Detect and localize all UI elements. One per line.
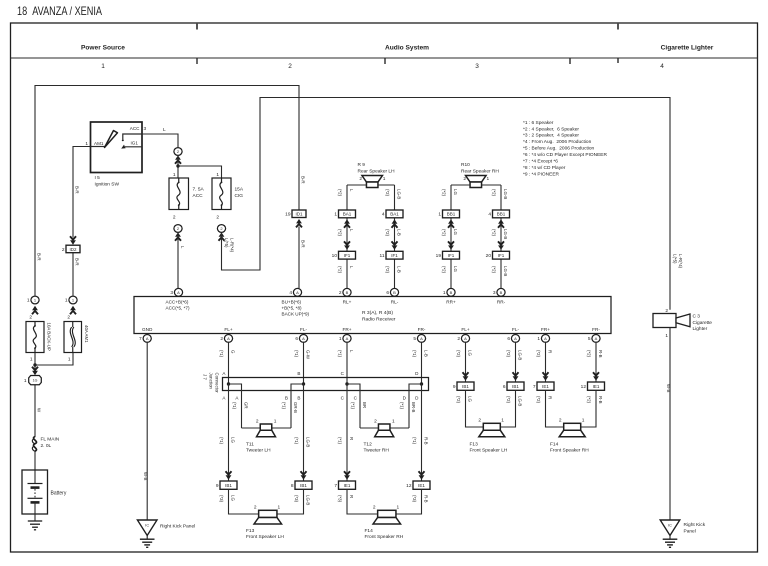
svg-text:CIG: CIG: [235, 193, 244, 199]
svg-text:ACC: ACC: [193, 193, 204, 199]
radio label FR+ at x=347: [343, 327, 352, 332]
svg-text:2: 2: [339, 290, 342, 296]
wire rear speaker chain x=451: [450, 185, 452, 288]
svg-text:(*1): (*1): [338, 350, 343, 358]
svg-text:IG1: IG1: [131, 141, 139, 146]
svg-text:R-B: R-B: [424, 495, 429, 503]
svg-text:Power Source: Power Source: [81, 45, 125, 52]
column number 3: [475, 63, 479, 70]
wire IE1 to F14 RH group2: [546, 390, 597, 427]
wire IE1 to F14 RH: [347, 489, 422, 514]
ground IC right kick panel (radio): [137, 520, 157, 547]
svg-text:2: 2: [463, 176, 466, 182]
ignition switch IG1 contact: [121, 145, 142, 149]
svg-text:F13: F13: [246, 528, 255, 534]
svg-text:LG: LG: [453, 266, 458, 272]
branch label (*1) GR-B: [282, 402, 298, 413]
svg-text:RL-: RL-: [391, 300, 399, 305]
svg-text:LG-B: LG-B: [306, 437, 311, 447]
svg-text:3: 3: [493, 290, 496, 296]
svg-text:FR-: FR-: [418, 327, 426, 332]
arrow into circle 2 below switch: [175, 155, 181, 163]
arrow into IB1 pin 9: [226, 471, 232, 479]
connector ID1: [285, 210, 306, 218]
wire label (*3) R-B: [412, 495, 428, 503]
arrow into IB1 pin 6 group2: [513, 372, 519, 380]
svg-text:(*1): (*1): [219, 437, 224, 445]
pin 2 of 40A AM1: [67, 315, 70, 321]
svg-text:LG-B: LG-B: [503, 266, 508, 276]
wire IB1 to F13 LH: [229, 489, 304, 514]
arrow into IF1 from above x=501: [498, 241, 504, 249]
svg-text:Tweeter RH: Tweeter RH: [364, 448, 390, 454]
arrow into IF1 from above x=394.5: [392, 241, 398, 249]
svg-text:2: 2: [478, 418, 481, 424]
pins of F14: [373, 505, 400, 511]
label T11 Tweeter LH: [246, 441, 271, 453]
arrow into IE1 pin 7: [344, 471, 350, 479]
svg-text:B: B: [297, 371, 300, 376]
front speaker F14 RH group2: [559, 423, 585, 437]
header divider line: [11, 57, 758, 59]
connector IF1 pin 19: [436, 251, 460, 259]
svg-text:5: 5: [588, 336, 591, 342]
svg-text:2: 2: [220, 336, 223, 342]
svg-text:(*3): (*3): [219, 495, 224, 503]
svg-text:LG-B: LG-B: [306, 495, 311, 505]
svg-text:ID1: ID1: [295, 212, 303, 217]
pins of F14 group2: [559, 418, 585, 424]
wire label (*2) LG: [442, 266, 458, 274]
svg-text:R: R: [349, 495, 354, 498]
connector IE1 pin 7 group2: [533, 382, 554, 390]
svg-text:(*2): (*2): [492, 229, 497, 237]
svg-text:Cigarette Lighter: Cigarette Lighter: [661, 45, 714, 52]
svg-text:G: G: [231, 350, 236, 354]
wire label (*2) R upper: [536, 350, 552, 358]
svg-text:ACC: ACC: [130, 126, 140, 131]
node letters B B below junction: [285, 396, 301, 401]
arrow into BB1 from below: [498, 219, 504, 227]
svg-text:B-R: B-R: [75, 258, 80, 266]
radio label RR+: [446, 300, 456, 305]
svg-text:2: 2: [374, 418, 377, 424]
svg-text:(*2): (*2): [385, 229, 390, 237]
wire label (*1) LG: [219, 437, 235, 445]
radio bottom pin 5 FR- at x=421.5: [413, 335, 425, 343]
svg-text:L: L: [163, 127, 166, 133]
svg-text:FL+: FL+: [461, 327, 469, 332]
svg-text:4: 4: [382, 212, 385, 218]
svg-text:Panel: Panel: [684, 528, 696, 534]
wire label B-R below ID2: [75, 258, 80, 266]
connector circle 2 below CIG fuse: [217, 225, 225, 233]
svg-text:IF1: IF1: [498, 253, 505, 258]
svg-text:IB1: IB1: [462, 384, 469, 389]
svg-text:1: 1: [501, 418, 504, 424]
connector IF1 pin 11: [380, 251, 403, 259]
svg-text:Front Speaker RH: Front Speaker RH: [550, 448, 589, 454]
svg-text:1: 1: [397, 505, 400, 511]
svg-text:BACK UP(*9): BACK UP(*9): [282, 311, 310, 316]
wire CIG fuse to cigarette lighter: [222, 98, 671, 310]
branch wire D to tweeter: [409, 384, 422, 428]
section label Cigarette Lighter: [661, 45, 714, 52]
wire label (*1) G: [219, 350, 235, 358]
svg-text:Junction: Junction: [209, 373, 214, 390]
node letters C C below junction: [341, 396, 358, 401]
svg-text:*1 : 6 Speaker: *1 : 6 Speaker: [523, 120, 554, 126]
svg-text:1: 1: [216, 172, 219, 178]
svg-text:Right Kick Panel: Right Kick Panel: [160, 524, 195, 530]
svg-text:AM1: AM1: [94, 141, 104, 146]
connector circle 2 below switch: [174, 148, 182, 156]
svg-text:2: 2: [457, 336, 460, 342]
wire radio to IE1 pin 12: [595, 342, 597, 382]
svg-text:(*1): (*1): [338, 437, 343, 445]
pin 2 of 7.5A ACC: [173, 214, 176, 220]
svg-text:B: B: [346, 290, 349, 295]
svg-text:B: B: [500, 290, 503, 295]
wire radio B to junction connector: [303, 342, 305, 384]
svg-text:1: 1: [30, 357, 33, 363]
svg-text:(*2): (*2): [506, 396, 511, 404]
svg-text:1: 1: [85, 141, 88, 147]
radio label RR-: [497, 300, 506, 305]
svg-text:FR-: FR-: [592, 327, 600, 332]
pin 2 of 15A CIG: [216, 214, 219, 220]
svg-text:IC: IC: [145, 523, 149, 527]
svg-text:3: 3: [144, 126, 147, 132]
connector IE1 pin 7: [334, 481, 355, 489]
wire label (*2) LG-B lower: [506, 396, 522, 406]
svg-text:(*2): (*2): [442, 189, 447, 197]
svg-text:LG: LG: [453, 229, 458, 235]
fusible link FL MAIN 2.0L: [32, 437, 36, 452]
svg-text:Battery: Battery: [51, 491, 67, 497]
arrow into IE1 pin 7 group2: [543, 372, 549, 380]
wire R 9 stubs: [347, 184, 395, 186]
radio bottom pin 6 FL- at x=515.5: [507, 335, 519, 343]
wire A junction to IB1/IE1: [228, 384, 230, 481]
wire label (*2) LG-B: [492, 229, 508, 239]
svg-text:IE1: IE1: [418, 483, 425, 488]
svg-text:LG-B: LG-B: [518, 350, 523, 360]
svg-text:R: R: [349, 437, 354, 440]
svg-text:FL+: FL+: [224, 327, 232, 332]
svg-text:(*2): (*2): [587, 396, 592, 404]
label F13 Front Speaker LH: [246, 528, 284, 540]
pin 2 of 10A BACK-UP: [29, 315, 32, 321]
wire battery to connector 1G: [34, 385, 36, 484]
svg-text:6: 6: [295, 336, 298, 342]
junction node A: [227, 382, 230, 385]
svg-text:(*2): (*2): [338, 189, 343, 197]
wire 40A AM1 to ID2: [72, 253, 74, 296]
pins of T11: [256, 418, 277, 424]
svg-text:(*1): (*1): [412, 437, 417, 445]
svg-text:(*1): (*1): [219, 350, 224, 358]
svg-text:(*2): (*2): [456, 396, 461, 404]
svg-text:F14: F14: [365, 528, 374, 534]
svg-text:LG: LG: [453, 189, 458, 195]
wire label (*1) L: [338, 350, 354, 358]
title: [17, 4, 102, 18]
radio label FL- at x=303.5: [300, 327, 307, 332]
label 10A BACK-UP: [47, 323, 52, 351]
wire ACC fuse to radio: [177, 233, 179, 289]
svg-text:(*3): (*3): [338, 495, 343, 503]
svg-text:2: 2: [373, 505, 376, 511]
pin 1 of 10A BACK-UP: [30, 357, 33, 363]
node letters D D below junction: [403, 396, 420, 401]
label 15A CIG: [235, 187, 244, 200]
notes legend *1-*9: [523, 120, 608, 178]
label Right Kick Panel (radio): [160, 524, 195, 530]
svg-text:1: 1: [438, 212, 441, 218]
svg-text:A: A: [346, 336, 349, 341]
connector circle 2 below ACC fuse: [174, 225, 182, 233]
radio label RL-: [391, 300, 399, 305]
radio pin 4 +B: [289, 288, 301, 296]
wire fuse join to 1G: [35, 353, 73, 369]
label IG1: [131, 141, 139, 146]
svg-text:IF1: IF1: [448, 253, 455, 258]
svg-text:B: B: [285, 396, 288, 401]
svg-text:IE1: IE1: [344, 483, 351, 488]
svg-text:RR+: RR+: [446, 300, 456, 305]
svg-text:R: R: [548, 396, 553, 399]
svg-text:1: 1: [487, 176, 490, 182]
radio label ACC+B: [166, 299, 190, 310]
label R 3(A) R 4(B) Radio Receiver: [362, 310, 396, 323]
arrow into circle below ACC fuse: [175, 232, 181, 240]
svg-text:2: 2: [665, 308, 668, 314]
label 7.5A ACC: [193, 187, 205, 200]
svg-text:A: A: [146, 336, 149, 341]
svg-text:6: 6: [503, 384, 506, 390]
svg-text:*5 : Before Aug. 2006 Product: *5 : Before Aug. 2006 Production: [523, 146, 595, 152]
label F14 Front Speaker RH group2: [550, 441, 589, 453]
branch label (*1) BR-B: [400, 402, 416, 413]
svg-text:(*2): (*2): [385, 266, 390, 274]
wire ID2 to ignition switch AM1: [73, 147, 91, 238]
wire label L to radio ACC: [180, 246, 185, 249]
svg-text:*3 : 2 Speaker, 4 Speaker: *3 : 2 Speaker, 4 Speaker: [523, 133, 579, 139]
wire circle to fuse split: [177, 156, 179, 178]
svg-text:19: 19: [436, 253, 442, 259]
wire label (*2) LG lower: [456, 396, 472, 404]
svg-text:1: 1: [278, 505, 281, 511]
svg-text:IE1: IE1: [593, 384, 600, 389]
wire radio to IE1 pin 7: [545, 342, 547, 382]
svg-text:B-R: B-R: [300, 240, 305, 248]
svg-text:A: A: [420, 336, 423, 341]
wire radio to IB1 pin 9: [465, 342, 467, 382]
arrow into ID2 from above: [70, 236, 76, 244]
label C 3 Cigarette Lighter: [693, 314, 713, 333]
svg-text:IE1: IE1: [542, 384, 549, 389]
svg-text:11: 11: [380, 253, 385, 259]
svg-text:Rear Speaker LH: Rear Speaker LH: [358, 168, 396, 174]
node letter A above junction: [222, 371, 226, 376]
svg-text:A: A: [296, 290, 299, 295]
svg-text:LG-B: LG-B: [518, 396, 523, 406]
tweeter T11 LH: [242, 424, 292, 437]
svg-text:(*1): (*1): [282, 402, 287, 410]
svg-text:GND: GND: [142, 327, 153, 332]
svg-text:C 3: C 3: [693, 314, 701, 320]
svg-text:12: 12: [406, 483, 412, 489]
svg-text:BB1: BB1: [497, 212, 506, 217]
svg-text:L-R(*4): L-R(*4): [230, 238, 235, 253]
svg-text:R-B: R-B: [598, 350, 603, 358]
svg-text:GR-B: GR-B: [293, 402, 298, 413]
arrow into BB1 from below: [448, 219, 454, 227]
wire label (*2) LG-B: [385, 189, 401, 199]
wire D junction to IB1/IE1: [421, 384, 423, 481]
connector 1G: [24, 376, 41, 385]
svg-text:W-B: W-B: [143, 472, 148, 481]
connector BB1 pin 4: [488, 210, 509, 218]
wire label (*2) L: [338, 266, 354, 274]
svg-text:Front Speaker LH: Front Speaker LH: [470, 448, 508, 454]
column number 1: [101, 63, 105, 70]
svg-text:F14: F14: [550, 441, 559, 447]
label F14 Front Speaker RH: [365, 528, 404, 540]
svg-text:(*2): (*2): [536, 396, 541, 404]
svg-text:1: 1: [443, 290, 446, 296]
wire radio D to junction connector: [421, 342, 423, 384]
arrow into BA1 from below: [392, 219, 398, 227]
pin 1 of 15A CIG: [216, 172, 219, 178]
rear speaker R 9 LH: [362, 176, 383, 188]
radio label FL- at x=515.5: [512, 327, 519, 332]
svg-text:LG: LG: [231, 495, 236, 501]
svg-text:FR+: FR+: [343, 327, 352, 332]
radio bottom pin 2 FL+ at x=228.5: [220, 335, 232, 343]
svg-text:FL MAIN: FL MAIN: [41, 437, 60, 443]
wire label (*3) LG: [219, 495, 235, 503]
svg-text:BR: BR: [362, 402, 367, 408]
wire radio GND to ground: [146, 342, 148, 520]
branch wire C to tweeter: [347, 384, 360, 428]
radio label FR+ at x=545.5: [541, 327, 550, 332]
label T12 Tweeter RH: [364, 441, 390, 453]
arrow into circle below CIG fuse: [219, 232, 225, 240]
radio bottom pin 1 FR+ at x=545.5: [537, 335, 549, 343]
label ACC pin 3: [130, 126, 147, 132]
connector circle 1 above 10A BACK-UP: [27, 296, 39, 304]
radio label FL+ at x=228.5: [224, 327, 232, 332]
svg-text:RR-: RR-: [497, 300, 506, 305]
radio label FR- at x=596: [592, 327, 600, 332]
svg-text:(*1): (*1): [400, 402, 405, 410]
radio label GND at x=147.2: [142, 327, 153, 332]
radio pin 2 RL+: [339, 288, 351, 296]
svg-text:4: 4: [289, 290, 292, 296]
battery B1: [22, 470, 48, 514]
svg-text:B: B: [297, 396, 300, 401]
svg-text:W-B: W-B: [666, 384, 671, 393]
svg-text:Front Speaker RH: Front Speaker RH: [365, 534, 404, 540]
svg-text:18 AVANZA / XENIA: 18 AVANZA / XENIA: [17, 4, 102, 18]
svg-text:(*3): (*3): [294, 495, 299, 503]
wire label (*3) LG-B: [294, 495, 310, 505]
svg-text:5: 5: [413, 336, 416, 342]
svg-text:ACC(*5, *7): ACC(*5, *7): [166, 305, 190, 310]
svg-text:9: 9: [216, 483, 219, 489]
svg-text:R-B: R-B: [598, 396, 603, 404]
svg-text:(*2): (*2): [338, 229, 343, 237]
svg-text:B-R: B-R: [300, 176, 305, 184]
svg-text:L-B: L-B: [424, 350, 429, 357]
arrow into IB1 pin 8: [301, 471, 307, 479]
svg-text:1: 1: [27, 298, 30, 304]
radio pin 6 RL-: [386, 288, 398, 296]
svg-text:4: 4: [488, 212, 491, 218]
svg-text:R10: R10: [461, 162, 470, 168]
svg-text:B-R: B-R: [37, 253, 42, 261]
svg-text:7: 7: [334, 483, 337, 489]
branch wire A to tweeter: [229, 384, 242, 428]
wire radio A to junction connector: [228, 342, 230, 384]
cigarette lighter C 3: [653, 314, 690, 328]
svg-text:(*2): (*2): [456, 350, 461, 358]
label FL MAIN 2.0L: [41, 437, 60, 449]
svg-text:BA1: BA1: [343, 212, 352, 217]
wire label (*2) LG-B upper: [506, 350, 522, 360]
svg-text:1: 1: [24, 378, 27, 384]
svg-text:FL-: FL-: [300, 327, 307, 332]
wire label (*2) LG: [442, 189, 458, 197]
wire rear speaker chain x=501: [500, 185, 502, 288]
svg-text:LG-B: LG-B: [397, 189, 402, 199]
battery ground: [28, 521, 42, 530]
svg-text:4: 4: [660, 63, 664, 70]
fuse 7.5A ACC: [169, 178, 189, 210]
section label Audio System: [385, 45, 429, 52]
svg-text:(*2): (*2): [492, 189, 497, 197]
wire label (*2) LG-B: [492, 189, 508, 199]
svg-text:Cigarette: Cigarette: [693, 320, 713, 326]
node letters A A below junction: [222, 396, 239, 401]
svg-text:R 3(A), R 4(B): R 3(A), R 4(B): [362, 310, 393, 316]
connector IE1 pin 12 group2: [581, 382, 605, 390]
connector IB1 pin 9 group2: [453, 382, 474, 390]
pin 1 of 7.5A ACC: [173, 172, 176, 178]
wire R10 stubs: [451, 184, 501, 186]
svg-text:*4 : From Aug. 2006 Productio: *4 : From Aug. 2006 Production: [523, 139, 592, 145]
junction node D: [420, 382, 423, 385]
label F13 Front Speaker LH group2: [470, 441, 508, 453]
label I 5 Ignition SW: [95, 175, 120, 187]
radio bottom pin 5 FR- at x=596: [588, 335, 600, 343]
svg-text:(*2): (*2): [506, 350, 511, 358]
svg-text:I 5: I 5: [95, 175, 101, 181]
wire label (*2) L-B: [385, 266, 401, 274]
svg-text:1: 1: [173, 172, 176, 178]
svg-text:2: 2: [559, 418, 562, 424]
svg-text:Rear Speaker RH: Rear Speaker RH: [461, 168, 499, 174]
svg-text:9: 9: [453, 384, 456, 390]
svg-text:ACC+B(*6): ACC+B(*6): [166, 299, 189, 304]
label R10 Rear Speaker RH: [461, 162, 499, 174]
svg-text:40A AM1: 40A AM1: [84, 325, 89, 343]
svg-text:L-B: L-B: [397, 266, 402, 273]
svg-text:20: 20: [486, 253, 492, 259]
svg-text:10A BACK-UP: 10A BACK-UP: [47, 323, 52, 351]
